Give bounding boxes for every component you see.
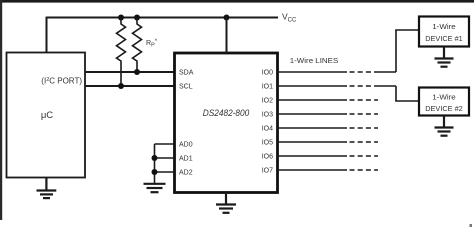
wire uC Vcc vertical (46, 17, 48, 53)
1-Wire device #2 box (419, 88, 469, 116)
svg-text:DEVICE #2: DEVICE #2 (425, 104, 463, 113)
svg-text:IO2: IO2 (262, 98, 273, 105)
svg-text:SCL: SCL (179, 84, 193, 91)
wire IO3 line (278, 113, 379, 115)
wire VCC rail (47, 17, 279, 19)
svg-text:1-Wire: 1-Wire (432, 22, 456, 31)
svg-text:1-Wire LINES: 1-Wire LINES (290, 56, 339, 65)
wire device1 vertical (395, 30, 397, 72)
svg-text:AD2: AD2 (179, 170, 193, 177)
scan artifact bottom right (470, 224, 473, 227)
IC U1 DS2482-800 box (175, 53, 278, 193)
border frame top (0, 0, 474, 3)
ground under device #1 (435, 47, 454, 67)
svg-text:AD0: AD0 (179, 142, 193, 149)
wire device1 entry (395, 29, 419, 31)
1-Wire device #1 box (419, 17, 469, 47)
svg-text:IO3: IO3 (262, 112, 273, 119)
svg-text:IO1: IO1 (262, 84, 273, 91)
wire IO4 line (278, 127, 379, 129)
svg-text:SDA: SDA (179, 70, 194, 77)
resistor RP1 (left pull-up) (117, 18, 126, 87)
microcontroller box uC (7, 53, 86, 178)
svg-text:DS2482-800: DS2482-800 (203, 108, 250, 118)
resistor RP2 (right pull-up) (133, 18, 142, 73)
wire device2 vertical (395, 86, 397, 101)
wire IO7 line (278, 169, 379, 171)
node junction dot AD1 (152, 155, 158, 161)
ground for AD pins (144, 184, 166, 192)
wire AD common vertical (154, 144, 156, 183)
wire VDD vertical to rail (226, 18, 228, 54)
svg-text:IO4: IO4 (262, 126, 273, 133)
svg-text:DEVICE #1: DEVICE #1 (425, 34, 463, 43)
svg-text:AD1: AD1 (179, 156, 193, 163)
node junction dot rail-R1 (118, 15, 124, 21)
svg-text:IO5: IO5 (262, 140, 273, 147)
node junction dot AD2 (152, 169, 158, 175)
wire AD2 (155, 171, 175, 173)
ground under U1 (216, 193, 236, 213)
svg-text:IO7: IO7 (262, 168, 273, 175)
ground under uC (37, 178, 57, 199)
node junction dot SCL-RP1 (118, 83, 124, 89)
svg-text:μC: μC (41, 110, 53, 121)
svg-text:IO6: IO6 (262, 154, 273, 161)
border frame left (0, 0, 2, 220)
wire AD0 (155, 143, 175, 145)
node junction dot rail-R2 (134, 15, 140, 21)
wire IO5 line (278, 141, 379, 143)
wire SCL (85, 85, 175, 87)
ground under device #2 (435, 116, 454, 136)
node junction dot rail-VDD (224, 15, 230, 21)
wire AD1 (155, 157, 175, 159)
wire IO1 line (278, 85, 397, 87)
wire IO6 line (278, 155, 379, 157)
svg-text:IO0: IO0 (262, 70, 273, 77)
wire SDA (85, 71, 175, 73)
wire IO0 line (278, 71, 397, 73)
svg-text:1-Wire: 1-Wire (432, 93, 456, 102)
node junction dot SDA-RP2 (134, 69, 140, 75)
wire IO2 line (278, 99, 379, 101)
wire device2 entry (395, 100, 419, 102)
